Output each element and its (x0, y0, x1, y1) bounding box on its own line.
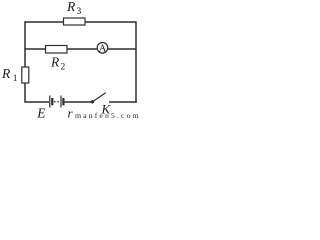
svg-text:R: R (50, 55, 60, 70)
label R3 (66, 0, 82, 17)
battery cell 1 long plate (49, 96, 51, 108)
wire top-left to R3 (25, 21, 64, 23)
wire left vertical lower (24, 83, 26, 103)
battery cell 2 short thick plate (62, 98, 64, 105)
watermark (75, 111, 141, 120)
svg-text:1: 1 (13, 74, 18, 84)
resistor R3 (64, 18, 86, 25)
resistor R2 (46, 46, 68, 54)
wire battery to switch (65, 101, 93, 103)
svg-text:E: E (36, 106, 46, 121)
label r (68, 106, 74, 121)
wire middle left segment (25, 48, 46, 50)
switch K pivot dot (91, 100, 94, 103)
switch K blade (93, 93, 106, 102)
resistor R1 (22, 67, 29, 83)
label R2 (50, 55, 66, 73)
label K (101, 102, 112, 117)
wire switch to bottom-right corner (109, 101, 137, 103)
label E (36, 106, 46, 121)
wire left vertical upper (24, 21, 26, 67)
battery cell 2 long plate (60, 96, 62, 108)
battery cell 1 short thick plate (51, 98, 53, 105)
svg-text:r: r (68, 106, 74, 121)
svg-text:R: R (66, 0, 76, 14)
battery dashed middle (54, 101, 60, 103)
wire R3 to top-right corner (85, 21, 136, 23)
label R1 (1, 66, 18, 84)
wire bottom-left to battery (25, 101, 50, 103)
svg-text:R: R (1, 66, 11, 81)
wire right vertical (135, 21, 137, 102)
svg-text:2: 2 (61, 63, 66, 73)
svg-text:3: 3 (77, 7, 82, 17)
ammeter A (97, 43, 108, 55)
wire R2 to ammeter (67, 48, 98, 50)
svg-text:A: A (99, 44, 107, 55)
wire ammeter to right (108, 48, 136, 50)
svg-text:manfen5.com: manfen5.com (75, 111, 141, 120)
